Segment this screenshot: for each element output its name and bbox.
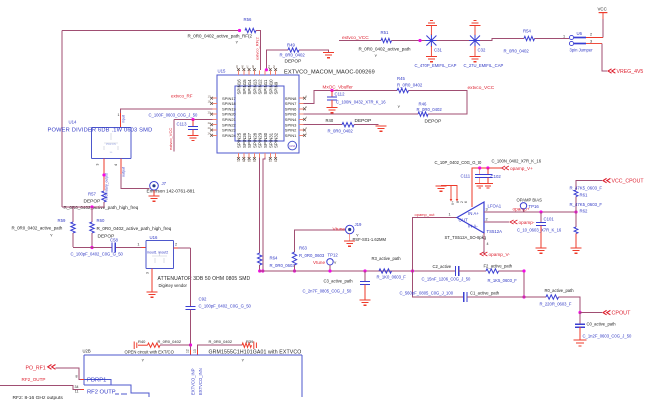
svg-text:C113: C113 [177, 122, 188, 127]
svg-text:U16: U16 [150, 235, 158, 240]
wire R39 to U2B pin13 [198, 345, 243, 350]
svg-text:ST_TS512A_SO-8pkg: ST_TS512A_SO-8pkg [445, 235, 487, 240]
U16 internal decoration [152, 252, 167, 263]
svg-text:R45: R45 [397, 76, 405, 81]
svg-text:3: 3 [590, 40, 592, 44]
ground for C101 [536, 248, 547, 253]
svg-text:SPIN26: SPIN26 [242, 132, 247, 148]
capacitor C112 [331, 91, 333, 97]
ground below C32 [470, 57, 481, 62]
svg-text:RF2: 8-16 GHz outputs: RF2: 8-16 GHz outputs [13, 395, 64, 401]
pin stub U15 SPIN23 left [213, 129, 218, 131]
pin stub U16 pin1 [142, 247, 147, 249]
pin stub U15 SPIN30 bottom [264, 153, 266, 158]
IC U16 attenuator body [146, 241, 174, 269]
resistor R62 [574, 227, 578, 234]
wire R62 bottom to ground [575, 234, 577, 249]
capacitor C0 [579, 313, 581, 325]
wire opamp_out column [413, 218, 464, 298]
ground for C113 [188, 135, 199, 140]
svg-text:R_0R0_0402: R_0R0_0402 [158, 339, 182, 344]
resistor R3 [379, 269, 392, 273]
wire R51 to C31 [392, 40, 427, 42]
svg-text:R_0R0_0402_active_path: R_0R0_0402_active_path [359, 47, 412, 52]
node junction C113 [191, 118, 194, 121]
wire opamp pin3 to bias rail [484, 211, 576, 213]
ground for J7 [149, 196, 160, 201]
svg-text:R39: R39 [246, 339, 254, 344]
wire U15 pin to R64 [259, 158, 261, 254]
pin stub U15 SPIN10 top [269, 71, 271, 76]
resistor R59 [71, 222, 75, 233]
svg-text:R_0R0_0402: R_0R0_0402 [328, 129, 354, 134]
wire C1 to R0 [467, 296, 546, 298]
svg-text:SPIN28: SPIN28 [252, 132, 257, 148]
svg-text:U14: U14 [69, 120, 77, 125]
pin stub U14 pin4 output [120, 159, 122, 175]
pin stub U15 SPIN3 right [299, 124, 304, 126]
wire R40 to ground [354, 124, 379, 126]
ground for U16 [147, 292, 158, 297]
svg-text:PO_RF1: PO_RF1 [26, 366, 46, 372]
svg-text:C_470P_EMIFIL_CAP: C_470P_EMIFIL_CAP [415, 63, 457, 68]
wire opamp V+ rail red [472, 168, 501, 207]
svg-text:C3_active_path: C3_active_path [324, 279, 354, 284]
svg-text:C_2n7F_0805_C0G_J_50: C_2n7F_0805_C0G_J_50 [303, 289, 353, 294]
wire R2 to corner down [499, 271, 525, 297]
svg-text:C_100N_0402_X7R_K_16: C_100N_0402_X7R_K_16 [492, 159, 542, 164]
pin stub U15 SPIN21 left [213, 118, 218, 120]
svg-text:DigiKey vendor: DigiKey vendor [159, 283, 188, 288]
svg-text:SPIN17: SPIN17 [222, 96, 237, 101]
resistor R60 [90, 222, 94, 233]
wire SPIN7 to Vbuffer rail [304, 91, 398, 104]
node junction R40 row [189, 343, 192, 346]
svg-text:SPIN20: SPIN20 [222, 112, 237, 117]
pin stub U15 SPIN14 top [248, 71, 250, 76]
node junction bottom rail [90, 246, 93, 249]
svg-text:opamp_V+: opamp_V+ [510, 166, 533, 171]
svg-text:inout1: inout1 [147, 251, 157, 255]
svg-text:R3_active_path: R3_active_path [372, 256, 402, 261]
node junction C112 [330, 89, 333, 92]
svg-text:SPIN1: SPIN1 [285, 133, 297, 138]
svg-text:ATTENUATOR 3DB 50 OHM 0805 SMD: ATTENUATOR 3DB 50 OHM 0805 SMD [158, 276, 251, 282]
pin stub U2B pin8 [81, 379, 85, 381]
wire R63 top to J19 Vtune [295, 230, 346, 252]
port VREG_4V5 [608, 69, 615, 73]
node junction C101 [539, 210, 542, 213]
svg-text:SPIN24: SPIN24 [222, 133, 237, 138]
svg-text:RF2 OUTP: RF2 OUTP [87, 390, 116, 396]
svg-text:SPIN15: SPIN15 [242, 79, 247, 95]
svg-text:R_0R0_0402: R_0R0_0402 [209, 339, 233, 344]
ground for C3 [360, 300, 371, 305]
svg-text:V+: V+ [451, 201, 455, 205]
svg-text:U6: U6 [577, 31, 583, 36]
svg-text:4: 4 [114, 164, 118, 166]
net label opamp- with arrows [510, 220, 517, 224]
wire C2 to R2 [459, 270, 486, 272]
resistor R63 [292, 252, 296, 265]
IC U2B block outline [84, 355, 302, 397]
svg-text:C_1n2F_0603_C0G_J_50: C_1n2F_0603_C0G_J_50 [583, 334, 633, 339]
svg-text:F2_active_path: F2_active_path [484, 264, 513, 269]
svg-text:R59: R59 [58, 218, 66, 223]
capacitor C1 [464, 292, 467, 302]
svg-text:R63: R63 [299, 246, 307, 251]
pin stub U15 SPIN32 bottom [275, 153, 277, 158]
svg-text:C0_active_path: C0_active_path [587, 322, 617, 327]
svg-text:1: 1 [563, 35, 565, 39]
ground for C102 [483, 184, 493, 189]
decoration dots after RF2 OUTP [115, 393, 127, 395]
svg-text:GRM1555C1H101GA01 with EXTVCO: GRM1555C1H101GA01 with EXTVCO [209, 350, 302, 356]
wire to CPOUT port [580, 312, 602, 314]
svg-text:R_0R0_0402_active_path_RF(2: R_0R0_0402_active_path_RF(2 [188, 34, 253, 39]
emifil capacitor C32 [469, 34, 481, 47]
svg-text:Vtune: Vtune [333, 227, 346, 233]
svg-text:opamp_V-: opamp_V- [489, 252, 511, 257]
pin stub U15 SPIN31 bottom [269, 153, 271, 158]
svg-text:opamp_out: opamp_out [415, 212, 436, 217]
svg-text:Y: Y [398, 104, 401, 109]
svg-text:R61: R61 [580, 193, 588, 198]
wire net extvco_RF [121, 109, 213, 113]
wire U14 output to J7 [121, 174, 150, 189]
pin stub U14 pin1 input [120, 113, 122, 128]
wire R49 right to ground [299, 50, 329, 52]
capacitor C102 [487, 168, 489, 174]
svg-text:SPIN22: SPIN22 [222, 122, 237, 127]
capacitor C111 [479, 168, 481, 174]
svg-text:R_1K5_0603_F: R_1K5_0603_F [488, 278, 518, 283]
pin stub U15 SPIN7 right [299, 103, 304, 105]
wire J7 to ground [153, 190, 155, 196]
svg-text:Vtune: Vtune [313, 260, 325, 265]
pin stub U2B pin34 [81, 389, 85, 391]
svg-text:extvco_RF(2: extvco_RF(2 [255, 37, 260, 60]
capacitor C3 [364, 271, 366, 281]
svg-text:2: 2 [486, 218, 488, 222]
svg-text:R0_active_path: R0_active_path [545, 288, 575, 293]
svg-text:IN A-: IN A- [468, 224, 478, 229]
port VCC_CPOUT [603, 178, 610, 182]
node junction corner C1 row [522, 295, 525, 298]
svg-text:Y: Y [50, 233, 53, 238]
svg-text:13: 13 [193, 349, 197, 353]
svg-text:SPIN19: SPIN19 [222, 106, 237, 111]
svg-text:R_0R0_0402: R_0R0_0402 [280, 53, 306, 58]
svg-text:SPIN31: SPIN31 [268, 132, 273, 148]
capacitor C101 [540, 212, 542, 222]
net label opamp_V+ with arrows [502, 166, 509, 170]
svg-text:SPIN3: SPIN3 [285, 122, 297, 127]
ground below C31 [426, 57, 437, 62]
svg-text:OPEN circuit with EXT/CO: OPEN circuit with EXT/CO [125, 350, 175, 355]
svg-text:R64: R64 [270, 256, 278, 261]
svg-text:C_100F_0603_C0G_J_50: C_100F_0603_C0G_J_50 [149, 113, 199, 118]
node junction at R56 left [238, 29, 241, 32]
svg-text:SPIN27: SPIN27 [247, 132, 252, 148]
resistor R56 [245, 28, 256, 32]
wire R59 top stub [72, 207, 74, 222]
svg-text:SPIN32: SPIN32 [274, 132, 279, 148]
svg-text:DEPOP: DEPOP [84, 199, 101, 205]
svg-text:EXTVCO_MACOM_MAOC-009269: EXTVCO_MACOM_MAOC-009269 [284, 70, 375, 76]
svg-text:output: output [122, 167, 126, 177]
wire R40 to C92 column [160, 344, 191, 346]
svg-text:IN A+: IN A+ [468, 211, 479, 216]
pin stub U15 SPIN4 right [299, 118, 304, 120]
svg-text:Y: Y [142, 358, 145, 363]
pin stub U15 SPIN1 right [299, 134, 304, 136]
svg-text:11: 11 [75, 390, 79, 394]
svg-text:SPIN25: SPIN25 [237, 132, 242, 148]
pin PDRP1 line [84, 380, 111, 386]
ground for R49 net [323, 53, 334, 58]
svg-text:8: 8 [76, 375, 78, 379]
svg-text:R_0R0_0402: R_0R0_0402 [504, 49, 530, 54]
power symbol VCC [599, 12, 608, 14]
connector J7 coax [150, 182, 159, 191]
svg-text:C_100N_0432_X7R_K_16: C_100N_0432_X7R_K_16 [336, 100, 386, 105]
svg-text:EXTVCO_INN: EXTVCO_INN [198, 368, 203, 395]
pin stub U15 SPIN16 top [238, 71, 240, 76]
svg-text:EXTVCO_INP: EXTVCO_INP [190, 368, 195, 395]
wire extvco_VCC to R51 [339, 40, 381, 42]
svg-text:SPIN7: SPIN7 [285, 101, 297, 106]
wire R60 top stub [91, 207, 93, 222]
svg-text:U15: U15 [218, 69, 226, 74]
svg-text:2: 2 [175, 243, 177, 247]
resistor R39 with end bars [242, 343, 252, 347]
wire C32 to R54 [480, 39, 524, 41]
wire bottom bus [260, 270, 456, 272]
ground above C32 inverted [470, 20, 481, 25]
net label opamp_V- with arrows [480, 252, 487, 256]
svg-text:extvco_VCC: extvco_VCC [468, 85, 495, 91]
svg-text:C_15nF_1206_C0G_J_50: C_15nF_1206_C0G_J_50 [422, 277, 472, 282]
svg-text:C101: C101 [544, 217, 555, 222]
resistor R61 [574, 190, 578, 197]
svg-text:PDRP1: PDRP1 [87, 378, 106, 384]
svg-text:R_0R0_0402_active_path_high_fr: R_0R0_0402_active_path_high_freq [97, 226, 172, 231]
svg-text:C_10P_0402_C0G_G_t0: C_10P_0402_C0G_G_t0 [435, 160, 482, 165]
ground for J19 [344, 241, 355, 246]
node junction C102 [486, 166, 489, 169]
svg-text:POWER DIVIDER 6DB .1W 0603 SMD: POWER DIVIDER 6DB .1W 0603 SMD [48, 128, 153, 134]
power pin arrows on opamp top [450, 199, 459, 202]
svg-text:SPIN21: SPIN21 [222, 117, 237, 122]
node junction R49 net at U15 top pin [265, 68, 268, 71]
capacitor C2 [455, 266, 458, 276]
pin stub U15 SPIN18 left [213, 103, 218, 105]
wire R54 to U6 pin1 [535, 38, 570, 40]
svg-text:R_0R0_0402: R_0R0_0402 [417, 107, 443, 112]
pin stub U16 pin3 bottom [151, 269, 153, 275]
wire U16 pin3 to ground [151, 274, 153, 292]
node junction corner R2 [522, 269, 525, 272]
svg-text:R_47K5_0603_F: R_47K5_0603_F [570, 186, 603, 191]
resistor R0 [546, 295, 559, 299]
svg-text:3: 3 [146, 272, 150, 274]
U14 internal decoration [104, 133, 118, 150]
svg-text:1: 1 [118, 113, 120, 117]
testpoint TP12 [327, 259, 333, 265]
wire net active_path_RF2 vertical left [61, 31, 63, 208]
wire C92 column upper [190, 248, 192, 306]
wire bottom rail to C58 [73, 247, 112, 249]
svg-text:1: 1 [137, 243, 139, 247]
svg-text:OPAMP BIAS: OPAMP BIAS [517, 198, 543, 203]
svg-text:CPOUT: CPOUT [612, 311, 632, 317]
svg-text:C1_active_path: C1_active_path [470, 291, 500, 296]
svg-text:R60: R60 [97, 218, 105, 223]
svg-text:OUT: OUT [459, 218, 469, 223]
wire opamp pin4 down [483, 233, 485, 254]
wire VCC_CPOUT to R61 [576, 181, 602, 213]
pin stub U15 SPIN24 left [213, 134, 218, 136]
resistor R40 depop [342, 123, 354, 127]
svg-text:R46: R46 [419, 102, 427, 107]
svg-text:SPIN11: SPIN11 [263, 79, 268, 94]
pin stub U15 SPIN25 bottom [238, 153, 240, 158]
svg-text:C58: C58 [110, 238, 118, 243]
wire R46 left to SPIN5 [304, 113, 419, 115]
capacitor C58 [112, 243, 115, 253]
svg-text:C2_active: C2_active [433, 264, 452, 269]
ground for R62 [571, 248, 582, 253]
wire C31 to C32 [436, 40, 470, 42]
svg-text:U15A: U15A [289, 145, 295, 148]
connector J19 Vtune coax [346, 225, 354, 233]
svg-text:R49: R49 [287, 43, 295, 48]
IC U15 inner body [235, 86, 284, 141]
resistor R40 open-circuit with end bars [134, 342, 147, 350]
svg-text:3: 3 [486, 208, 488, 212]
ground above C31 inverted [426, 20, 437, 25]
svg-text:extvco_VCC: extvco_VCC [168, 128, 173, 150]
jumper U6 pins [569, 35, 573, 39]
svg-text:C_100pF_0402_C0G_G_50: C_100pF_0402_C0G_G_50 [199, 304, 252, 309]
ground for C112 [327, 108, 338, 113]
pin stub U15 SPIN6 right [299, 108, 304, 110]
svg-text:C111: C111 [461, 174, 471, 179]
pin stub U15 SPIN20 left [213, 113, 218, 115]
svg-text:DEPOP: DEPOP [285, 59, 302, 65]
node junction R64 bus [258, 269, 261, 272]
ground for opamp power [436, 186, 447, 191]
svg-text:inout2: inout2 [159, 251, 169, 255]
IC U14 power divider body [92, 128, 132, 159]
node junction second column bus [261, 269, 264, 272]
pin stub U15 SPIN2 right [299, 129, 304, 131]
resistor R51 [381, 38, 392, 42]
node junction U14 pin3 [102, 173, 105, 176]
svg-text:VCC: VCC [598, 7, 607, 12]
pin stub U15 SPIN29 bottom [259, 153, 261, 158]
svg-text:R40: R40 [138, 339, 146, 344]
pin stub U15 SPIN17 left [213, 97, 218, 99]
wire PO_RF1 to pin8 [56, 368, 81, 380]
svg-text:DEPOP: DEPOP [355, 118, 372, 124]
ground for R40 depop [376, 126, 387, 131]
wire opamp pin2 short [484, 221, 509, 223]
svg-text:C_560pF_0805_C0G_J_100: C_560pF_0805_C0G_J_100 [400, 291, 454, 296]
svg-text:SPIN9: SPIN9 [274, 81, 279, 94]
svg-text:34: 34 [75, 385, 79, 389]
svg-text:C_10_0603_X7R_K_16: C_10_0603_X7R_K_16 [517, 228, 562, 233]
svg-text:C102: C102 [491, 174, 502, 179]
pin stub U15 SPIN13 top [253, 71, 255, 76]
svg-text:J7: J7 [162, 181, 167, 186]
svg-text:C32: C32 [478, 48, 486, 53]
svg-text:12: 12 [186, 349, 190, 353]
svg-text:C92: C92 [199, 297, 207, 302]
IC U15 outer body [217, 75, 299, 153]
wire SPIN3 to R40 depop [304, 124, 343, 126]
svg-text:SPIN10: SPIN10 [268, 79, 273, 95]
resistor R64 [258, 253, 262, 265]
pin stub U15 SPIN27 bottom [248, 153, 250, 158]
svg-text:SPIN13: SPIN13 [252, 79, 257, 95]
svg-text:TP12: TP12 [328, 253, 339, 258]
wire U15 pin to bus straight [263, 158, 265, 272]
resistor R2 [486, 269, 499, 273]
svg-text:TS512A: TS512A [487, 229, 503, 234]
svg-text:J19: J19 [355, 222, 363, 227]
svg-text:R57: R57 [88, 192, 96, 197]
wire RF2_OUTP from edge [0, 386, 81, 390]
svg-text:Y: Y [375, 53, 378, 58]
ground for C0 [574, 340, 587, 346]
pin stub U15 SPIN22 left [213, 124, 218, 126]
IC U15 corner circle U15A [288, 141, 297, 150]
svg-text:secondary_output: secondary_output [105, 173, 109, 200]
svg-text:SPIN8: SPIN8 [285, 96, 297, 101]
wire U16 pin2 to C92 column [178, 247, 191, 249]
svg-text:R40: R40 [326, 118, 334, 123]
svg-text:6: 6 [464, 201, 468, 203]
wire R56 to corner [256, 31, 261, 71]
wire C58 to U16 [116, 247, 142, 249]
svg-text:R_0R0_0603: R_0R0_0603 [299, 253, 325, 258]
wire net active_path_RF2 horizontal [62, 30, 239, 32]
svg-text:C_100pF_0402_C0G_G_50: C_100pF_0402_C0G_G_50 [71, 252, 124, 257]
svg-text:SPIN6: SPIN6 [285, 106, 297, 111]
svg-text:R_0R0_0402_active_path: R_0R0_0402_active_path [12, 226, 63, 231]
svg-text:SPIN23: SPIN23 [222, 128, 237, 133]
svg-text:R_1K0_0603_F: R_1K0_0603_F [377, 275, 407, 280]
wire C92 column lower [190, 309, 192, 350]
svg-text:PSF-S01-1.62MM: PSF-S01-1.62MM [353, 237, 387, 242]
svg-text:SPIN18: SPIN18 [222, 101, 237, 106]
port CPOUT [603, 310, 610, 314]
svg-text:VCC_CPOUT: VCC_CPOUT [612, 179, 645, 185]
pin stub U15 SPIN11 top [264, 71, 266, 76]
svg-text:R_0R0_0603: R_0R0_0603 [270, 263, 296, 268]
wire R64 bottom to bus [259, 265, 261, 271]
pin stub U15 SPIN8 right [299, 97, 304, 99]
svg-text:SPIN16: SPIN16 [237, 79, 242, 95]
svg-text:LFOA1: LFOA1 [488, 204, 502, 209]
node junction R63 bus [293, 269, 296, 272]
svg-text:SPIN2: SPIN2 [285, 128, 297, 133]
resistor R49 [288, 48, 299, 52]
pin stub U16 pin2 [174, 247, 179, 249]
capacitor C113 [192, 120, 194, 127]
